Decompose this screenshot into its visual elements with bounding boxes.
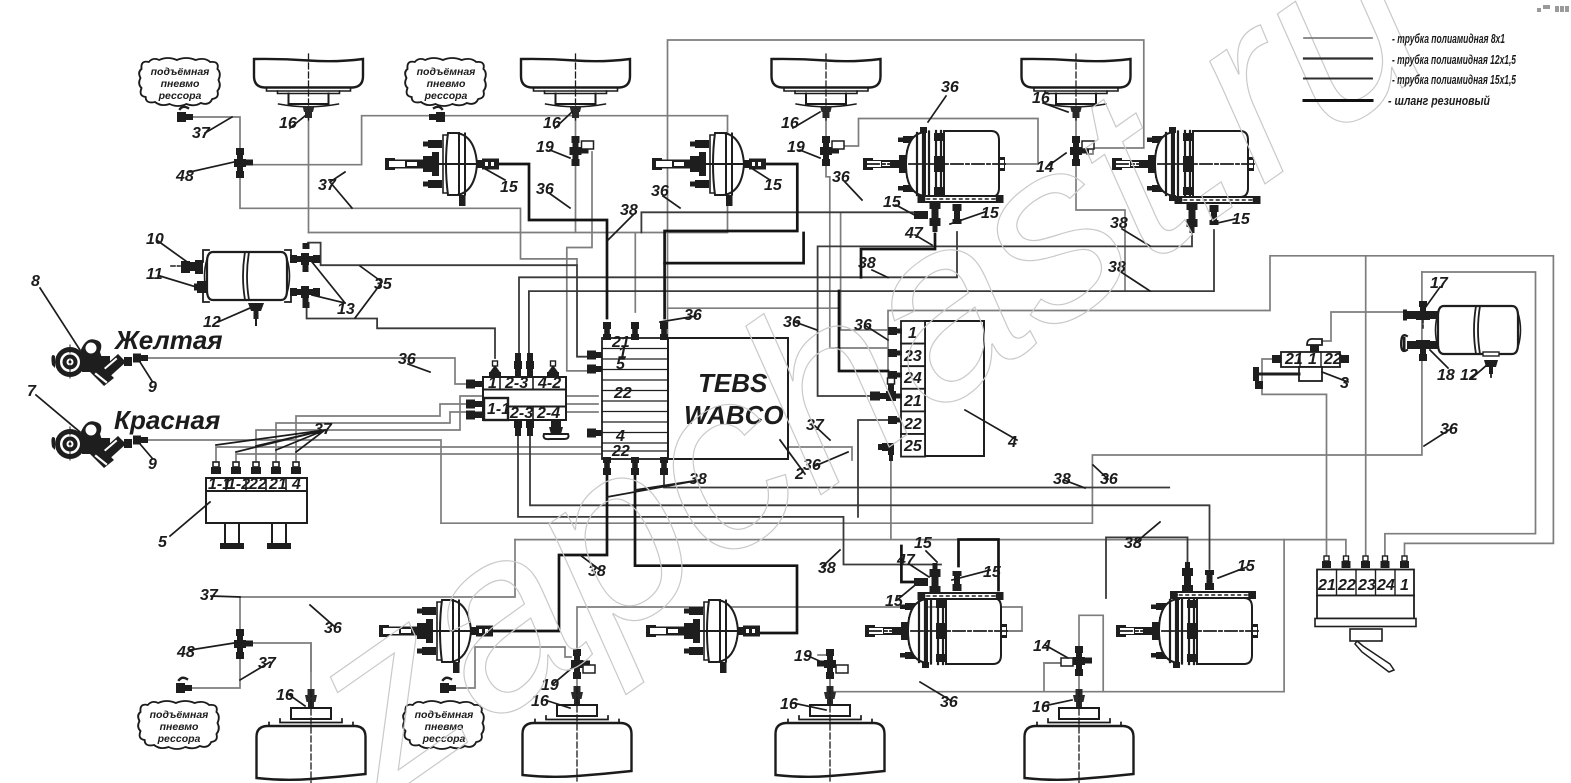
svg-text:Красная: Красная (114, 405, 220, 435)
manifold left ports (466, 380, 482, 389)
wire 36: air spring T2 column (575, 118, 577, 233)
wire 37: tee 48a down, long run to TEBS port 1 riser (240, 174, 577, 264)
wire 36: riser x840.6 with y308 run to TEBS corner and box1 feed (668, 212, 889, 330)
svg-text:15: 15 (1237, 558, 1256, 575)
svg-text:2-3: 2-3 (509, 405, 533, 422)
wire 37: block5 wire 3 (256, 396, 598, 466)
wire 36: tee19b T3 to TT1 right port (843, 119, 1038, 165)
svg-text:рессора: рессора (424, 90, 468, 102)
svg-text:1: 1 (1308, 351, 1317, 368)
valve 3 side ports (1272, 355, 1281, 363)
tee 48a (top left) (234, 148, 253, 178)
wire 38: TT1 right fitting to TEBS top port 3 (519, 232, 957, 353)
air spring B4 (1025, 689, 1134, 783)
wire 36: tank rectangle loop (R2) to release port 24 (1385, 272, 1536, 560)
svg-text:подъёмная: подъёмная (151, 66, 210, 78)
svg-text:16: 16 (781, 115, 799, 132)
svg-text:37: 37 (258, 655, 277, 672)
svg-text:подъёмная: подъёмная (150, 709, 209, 721)
tank drain 12 (248, 303, 264, 325)
svg-text:24: 24 (1376, 577, 1395, 594)
svg-text:15: 15 (764, 177, 783, 194)
wire 36: B4 loop tee14b (1044, 615, 1103, 691)
svg-text:37: 37 (318, 177, 337, 194)
svg-text:37: 37 (192, 125, 211, 142)
svg-text:14: 14 (1033, 638, 1051, 655)
coupling fitting 9 (yellow line) (133, 354, 148, 363)
wire 38: manifold bottom pipe 2 long run right (530, 436, 1210, 569)
svg-text:- шланг резиновый: - шланг резиновый (1388, 93, 1490, 108)
svg-text:22: 22 (1323, 351, 1342, 368)
svg-text:- трубка полиамидная 8х1: - трубка полиамидная 8х1 (1392, 31, 1505, 46)
valve 17 (tee on right tank) (1403, 301, 1439, 328)
svg-text:36: 36 (941, 79, 959, 96)
svg-text:рессора: рессора (157, 733, 201, 745)
brake chamber TT1 (tristop) (863, 127, 1005, 201)
wire 37: block5 wire 4 (276, 412, 598, 466)
block 5 top ports (211, 462, 221, 474)
brake chamber M4 (rear membrane) (646, 600, 760, 673)
svg-text:11: 11 (146, 266, 163, 283)
hose: TEBS bottom port1 to M3 (493, 475, 607, 631)
tee 14b on B4 column (1061, 646, 1092, 676)
wire 37: cloud4 elbow up to run (455, 647, 571, 688)
tee 47 side fitting TT3 (914, 578, 928, 586)
wire 38: module4 box22 line down (858, 420, 888, 517)
svg-text:12: 12 (1460, 367, 1478, 384)
air spring B3 (776, 686, 885, 781)
elbow at cloud4 (bottom) (440, 678, 456, 693)
hose: TEBS bottom port2 to M4 (635, 475, 797, 633)
svg-text:1: 1 (1400, 577, 1409, 594)
svg-text:35: 35 (374, 276, 393, 293)
wire 36: B2 column below tee (576, 672, 578, 692)
wire 36: gray y539 long run to module4 port 25 (515, 461, 891, 540)
svg-text:4: 4 (1007, 434, 1017, 451)
legend line 8x1 (1304, 37, 1372, 39)
air spring T1 elbow at cloud1 (177, 107, 193, 122)
svg-text:15: 15 (885, 593, 904, 610)
air spring T4 (1022, 54, 1131, 120)
air spring T2 elbow at cloud2 (429, 107, 445, 122)
wire 36: release port 22 from y537 run (891, 540, 1346, 560)
TT2 bottom plate with fittings 15 (1175, 196, 1261, 233)
wire 38: TT2 left fitting long run left to module4 area (818, 230, 1192, 396)
wire 36: supply run from module4 port21 over the top right (R1) (888, 256, 1553, 560)
tee 19d on B3 column (817, 649, 848, 679)
wire 36: air spring T1 column down to y235 run (308, 118, 310, 233)
cloud label "подъёмная пневморессора" top-left 1 (139, 58, 220, 106)
svg-text:5: 5 (158, 534, 168, 551)
wire 37: tee 48b up, long bottom run (240, 540, 515, 634)
legend line 12x1.5 (1304, 57, 1372, 59)
wire 38: TT2 right fitting long run left (529, 230, 1214, 353)
wire 36: valve17 to valve3 top fitting (1322, 312, 1403, 341)
wire 36: T1/T2 y235 run to TEBS riser (309, 116, 728, 312)
hand release valve bottom right (1315, 556, 1416, 672)
wire 37: tee 48b to B1 column (249, 643, 311, 695)
wire 36: release port 23 riser (1365, 256, 1367, 560)
wire 37: block5 wire 2 (236, 454, 640, 466)
svg-text:21: 21 (268, 476, 287, 493)
cloud label bottom 4 (403, 701, 484, 749)
hose: M2 right port to TEBS top port 3 (665, 164, 798, 318)
svg-text:36: 36 (940, 694, 958, 711)
wire 37: block5 wire 1 (216, 447, 852, 466)
svg-text:37: 37 (314, 421, 333, 438)
wire 35: tank tee13b to manifold top pipe (307, 297, 495, 358)
connector block 5 (bottom left) (206, 462, 307, 549)
svg-text:4: 4 (291, 476, 301, 493)
brake chamber M3 (rear left membrane) (379, 600, 493, 673)
port 21 tee assembly (870, 378, 902, 401)
svg-text:19: 19 (787, 139, 805, 156)
wire 37: block5 wire 5 (296, 404, 598, 466)
svg-text:48: 48 (176, 644, 195, 661)
svg-text:16: 16 (279, 115, 297, 132)
svg-text:3: 3 (1340, 375, 1349, 392)
wire 38: TT1 left fitting to TEBS top port 2 (641, 212, 914, 232)
valve 18 (cross on right tank) (1401, 335, 1439, 361)
svg-text:38: 38 (1053, 471, 1071, 488)
TEBS bottom ports (603, 457, 611, 475)
svg-text:16: 16 (1032, 699, 1050, 716)
release valve top ports (1322, 556, 1331, 568)
svg-text:18: 18 (1437, 367, 1455, 384)
tee 19b on T3 column (820, 136, 844, 166)
wire 36: B4 column (1078, 674, 1080, 695)
wire 36: B3 tee19d bottom port (829, 677, 831, 692)
air spring B2 (523, 686, 632, 781)
TT3 top plate with fittings (mirrored) (918, 563, 1004, 600)
tee 19a on T2 column (570, 136, 594, 166)
air spring B1 (257, 689, 366, 783)
valve 3 top fitting (1307, 339, 1322, 345)
wire 36: tank standpipe through valves 17/18 down to y455 run (441, 272, 1422, 523)
svg-text:16: 16 (543, 115, 561, 132)
wire 38: TEBS bottom port3 run right to TT4 (664, 475, 1169, 488)
wire 36: TT3 right port tail (1003, 630, 1022, 632)
port 25 elbow down (878, 443, 894, 461)
svg-text:22: 22 (248, 476, 267, 493)
legend line 15x1.5 (1304, 78, 1372, 80)
wire 36: T3 column (826, 118, 888, 348)
wire 36: red coupling line down to supply run (148, 440, 441, 523)
tee 14a on T4 column (1070, 136, 1094, 166)
manifold bottom pipes (514, 420, 522, 436)
svg-text:пневмо: пневмо (160, 721, 199, 733)
tank fitting 10 (left elbow) (171, 260, 203, 274)
svg-text:1-2: 1-2 (227, 476, 250, 493)
wire 35: tank tee13a to TEBS port 1 (308, 243, 591, 357)
svg-text:- трубка полиамидная 12х1,5: - трубка полиамидная 12х1,5 (1392, 52, 1517, 67)
svg-text:36: 36 (1100, 471, 1118, 488)
TEBS WABCO modulator (587, 322, 788, 475)
palm coupling Желтая (yellow head 8) (51, 339, 132, 386)
wire 36: tee14a down (1076, 159, 1125, 291)
wire 36: tee19a side port down to TEBS port 5 (567, 152, 592, 371)
wire 37: bottom left network: cloud3 elbow to tee48b (191, 652, 240, 688)
svg-text:7: 7 (27, 383, 37, 400)
wire 36: yellow coupling line to manifold (148, 358, 466, 384)
svg-text:15: 15 (914, 535, 933, 552)
svg-text:пневмо: пневмо (161, 78, 200, 90)
wire 36: T4 column + big top loop (1075, 118, 1077, 141)
svg-text:36: 36 (536, 181, 554, 198)
module 4 port fittings (888, 327, 902, 335)
hose: module4 box24 feed (839, 291, 888, 371)
hose: TT3 tee 47 side port (901, 546, 914, 582)
TT4 top plate with fittings (mirrored) (1170, 562, 1256, 599)
svg-text:15: 15 (983, 564, 1002, 581)
svg-text:- трубка полиамидная 15х1,5: - трубка полиамидная 15х1,5 (1392, 72, 1517, 87)
svg-text:38: 38 (620, 202, 638, 219)
brake chamber TT4 (tristop bottom) (1116, 594, 1258, 668)
wire 38: TEBS top port1 pipe up (606, 280, 608, 318)
svg-text:15: 15 (500, 179, 519, 196)
brake chamber TT3 (tristop bottom) (865, 594, 1007, 668)
svg-text:48: 48 (175, 168, 194, 185)
TEBS top ports (603, 322, 611, 340)
svg-text:16: 16 (276, 687, 294, 704)
tee 19c on B2 column (571, 649, 595, 679)
svg-text:36: 36 (1440, 421, 1458, 438)
TEBS left side ports (587, 351, 602, 360)
brake chamber M1 (membrane, front left) (385, 133, 499, 206)
svg-text:36: 36 (651, 183, 669, 200)
cloud label bottom 3 (138, 701, 219, 749)
manifold top tee port (489, 361, 501, 378)
air spring T2 (521, 54, 630, 120)
svg-text:13: 13 (337, 301, 355, 318)
wire 38: TT4 left fitting n-loop (1106, 537, 1188, 598)
wire 36: tee14b left port line (1044, 662, 1062, 664)
brake chamber M2 (membrane, front right) (652, 133, 766, 206)
svg-text:9: 9 (148, 456, 157, 473)
svg-text:23: 23 (1357, 577, 1376, 594)
central manifold block (466, 353, 569, 439)
wire 38: manifold bottom pipe 1 long run right (518, 436, 941, 565)
wire 37: tee 48a right port to cloud2 elbow (249, 116, 728, 165)
wire 36: B1 lifting line top of loaf (310, 643, 312, 671)
brake chamber TT2 (tristop) (1112, 127, 1254, 201)
svg-text:19: 19 (536, 139, 554, 156)
tee 47 side fitting TT1 (914, 211, 928, 219)
svg-text:19: 19 (794, 648, 812, 665)
tank tees 13 (right side) (290, 243, 320, 272)
palm coupling Красная (red head 7) (51, 421, 132, 468)
svg-text:8: 8 (31, 273, 40, 290)
hose: TT1 tee 47 bottom port to y277 run (861, 234, 935, 277)
air tank right (1436, 306, 1521, 354)
air spring T3 (772, 54, 881, 120)
svg-text:36: 36 (398, 351, 416, 368)
svg-text:17: 17 (1430, 275, 1449, 292)
svg-text:подъёмная: подъёмная (417, 66, 476, 78)
wire 36: x1284 drop to rear axle loop (830, 540, 1284, 692)
wire 37: cloud1 elbow to tee 48a (192, 117, 240, 150)
hose: TT3 straight fitting pi-loop to cylinder top port (959, 540, 999, 591)
air tank (ресивер) top-left (203, 250, 291, 302)
tee 48b (bottom left) (234, 629, 253, 659)
electronic module 4 (right of TEBS) (870, 321, 984, 461)
manifold drain valve (544, 420, 569, 439)
air spring T1 (254, 54, 363, 120)
right tank drain 12 (1483, 352, 1499, 379)
svg-text:10: 10 (146, 231, 164, 248)
release valve 3 (with pull rod) (1253, 339, 1349, 389)
svg-text:21: 21 (1317, 577, 1336, 594)
svg-text:2-3: 2-3 (504, 375, 528, 392)
legend line rubber hose (1304, 99, 1372, 102)
svg-text:Желтая: Желтая (113, 325, 223, 355)
svg-text:21: 21 (1284, 351, 1303, 368)
manifold top pipes (514, 353, 522, 377)
wire 36: B3 column (818, 655, 830, 692)
svg-text:38: 38 (1124, 535, 1142, 552)
wire 36: B2 tee19c to TT3 right port (577, 607, 1022, 649)
wire 36: big top rectangle from TEBS area over to tee14a (668, 40, 1144, 338)
hose: riser from y263 branch to M2 hose (665, 233, 804, 263)
svg-text:22: 22 (1337, 577, 1356, 594)
svg-text:38: 38 (818, 560, 836, 577)
cloud label top 2 (405, 58, 486, 106)
svg-text:1-1: 1-1 (487, 401, 510, 418)
leader lines (205, 117, 232, 133)
hose: M1 to TEBS top port 1 (499, 164, 607, 318)
svg-text:пневмо: пневмо (427, 78, 466, 90)
svg-text:рессора: рессора (158, 90, 202, 102)
svg-text:36: 36 (832, 169, 850, 186)
svg-text:9: 9 (148, 379, 157, 396)
TT1 bottom plate with fittings 15/47 (918, 195, 1004, 232)
svg-text:16: 16 (780, 696, 798, 713)
coupling fitting 9 (red line) (133, 436, 148, 445)
elbow at cloud3 (bottom) (176, 678, 192, 693)
svg-text:47: 47 (896, 552, 916, 569)
wire 36: valve3 bottom loop to release port 21 (1262, 359, 1327, 560)
tank plug 11 (194, 281, 206, 293)
svg-text:37: 37 (200, 587, 219, 604)
